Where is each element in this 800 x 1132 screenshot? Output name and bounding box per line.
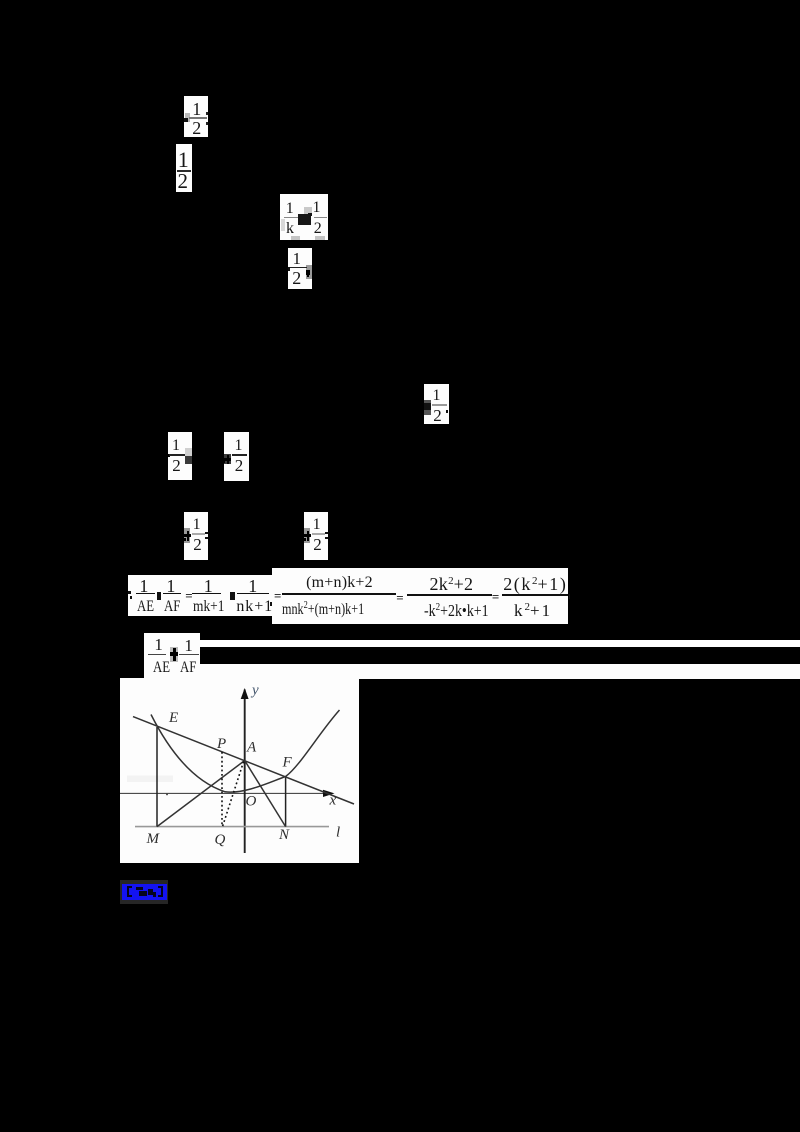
svg-text:M: M [146, 831, 161, 847]
svg-text:Q: Q [215, 832, 226, 848]
svg-text:x: x [329, 793, 337, 809]
svg-text:y: y [250, 683, 259, 699]
svg-text:P: P [216, 736, 226, 752]
svg-text:N: N [278, 827, 290, 843]
svg-text:l: l [336, 825, 340, 841]
svg-text:A: A [246, 740, 257, 756]
svg-text:E: E [168, 710, 178, 726]
svg-text:O: O [246, 794, 257, 810]
svg-text:F: F [282, 755, 293, 771]
